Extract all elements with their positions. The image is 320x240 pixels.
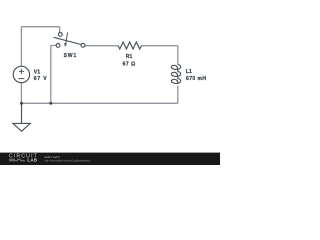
ground symbol bbox=[13, 103, 30, 131]
switch SW1 right throw terminal bbox=[81, 43, 85, 47]
switch SW1 actuation arrow bbox=[66, 32, 68, 43]
wire inductor top bbox=[177, 46, 179, 65]
svg-text:L1: L1 bbox=[186, 69, 192, 75]
node junction switch branch bbox=[49, 102, 52, 105]
wire switch left throw branch bbox=[51, 46, 56, 104]
wire bottom rail bbox=[21, 102, 177, 104]
wire inductor bottom bbox=[177, 86, 179, 104]
watermark banner bbox=[0, 153, 220, 165]
V1 plus sign bbox=[19, 69, 24, 74]
wire switch to resistor bbox=[85, 45, 118, 47]
svg-text:67 Ω: 67 Ω bbox=[123, 61, 136, 67]
node junction V1/ground bbox=[20, 102, 23, 105]
watermark CircuitLab logo lines bbox=[9, 159, 25, 161]
wire top horizontal bbox=[21, 26, 59, 28]
svg-text:670 mH: 670 mH bbox=[186, 76, 206, 82]
switch SW1 lever bbox=[54, 37, 81, 44]
svg-text:SW1: SW1 bbox=[64, 53, 77, 59]
svg-text:67 V: 67 V bbox=[34, 76, 47, 82]
V1 minus sign bbox=[18, 78, 24, 80]
wire V1 top vertical bbox=[20, 27, 22, 67]
voltage source V1 circle bbox=[13, 66, 29, 82]
svg-text:R1: R1 bbox=[126, 54, 133, 60]
inductor L1 coil bbox=[171, 65, 180, 84]
wire resistor to corner bbox=[142, 45, 178, 47]
svg-text:V1: V1 bbox=[34, 69, 40, 75]
wire switch pole drop bbox=[59, 27, 61, 33]
svg-text:LAB: LAB bbox=[27, 157, 37, 162]
switch SW1 left throw terminal bbox=[56, 44, 60, 48]
svg-text:http://circuitlab.com/ce2cq/ln: http://circuitlab.com/ce2cq/lnsatwtxtx/ bbox=[44, 158, 90, 162]
wire V1 bottom vertical bbox=[20, 83, 22, 104]
resistor R1 zigzag bbox=[118, 42, 142, 49]
switch SW1 pole terminal bbox=[58, 33, 62, 37]
